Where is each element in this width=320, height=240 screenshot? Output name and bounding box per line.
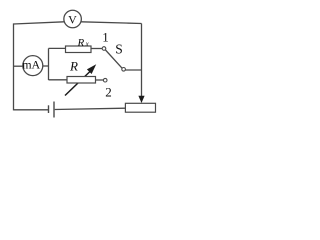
svg-text:1: 1 [102, 30, 109, 45]
svg-text:R: R [77, 37, 85, 49]
svg-text:R: R [69, 59, 78, 74]
svg-text:S: S [115, 41, 123, 56]
svg-text:mA: mA [22, 58, 40, 72]
svg-text:V: V [68, 12, 77, 26]
svg-text:2: 2 [105, 85, 112, 100]
